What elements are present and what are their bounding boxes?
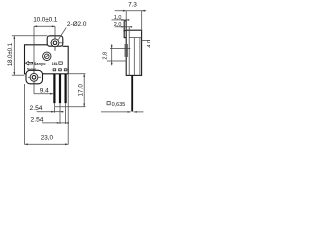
lead shoulder 1 [53, 69, 56, 71]
side view body [126, 30, 141, 75]
svg-text:0,635: 0,635 [112, 102, 126, 108]
svg-text:2.54: 2.54 [31, 116, 44, 123]
lead 2 [59, 74, 61, 103]
lead 3 [65, 74, 67, 103]
logo circle [43, 52, 51, 60]
polarity arrow marking [26, 61, 33, 65]
svg-text:18.0±0.1: 18.0±0.1 [7, 42, 14, 66]
front view body fill [25, 45, 68, 74]
svg-text:16L: 16L [52, 62, 59, 66]
front view body outline [25, 45, 69, 74]
top mounting tab [47, 36, 63, 46]
svg-text:17.0: 17.0 [77, 84, 84, 97]
svg-text:10.0±0.1: 10.0±0.1 [33, 17, 58, 24]
label square 0.635 [107, 102, 110, 105]
side view hole hidden lines [124, 44, 126, 57]
svg-text:7.3: 7.3 [128, 2, 137, 9]
svg-text:Sanyo: Sanyo [34, 62, 46, 66]
dim 4.0 right edge clipped [142, 40, 150, 42]
svg-text:23,0: 23,0 [41, 135, 54, 142]
side view inner line A [129, 37, 141, 39]
top hole crosshair [50, 42, 63, 44]
side view hole boss [124, 31, 129, 38]
svg-text:4,0: 4,0 [147, 40, 150, 48]
lead shoulder 2 [59, 69, 62, 71]
bottom hole [30, 73, 38, 81]
side view inner line B [128, 38, 130, 76]
centerline vertical through bottom hole (ext of 10.0 dim left) [33, 26, 35, 93]
centerline vertical through top hole (ext of 10.0 dim right) [54, 26, 56, 50]
side view lead [131, 75, 133, 111]
label 2-dia2.0 leader [58, 27, 66, 39]
lead shoulder 3 [64, 69, 67, 71]
side view inner line C [139, 38, 141, 76]
svg-text:2.54: 2.54 [30, 105, 43, 112]
lead 1 [53, 74, 55, 103]
bottom-left mounting ear [26, 70, 43, 84]
svg-text:2-Ø2.0: 2-Ø2.0 [67, 21, 87, 28]
svg-text:Sanyo: Sanyo [27, 67, 36, 71]
svg-text:2,8: 2,8 [102, 52, 108, 60]
side view tab [124, 21, 126, 32]
top hole 2-dia2.0 [51, 39, 59, 47]
bottom hole crosshair [28, 76, 41, 78]
marking small rect [59, 62, 63, 64]
